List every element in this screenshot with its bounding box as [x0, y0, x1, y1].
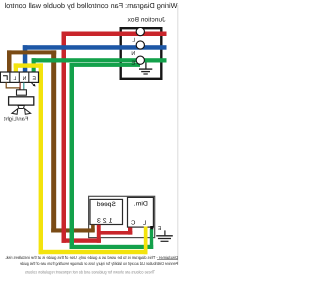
svg-text:Fan/Light: Fan/Light: [3, 116, 28, 122]
svg-text:E: E: [32, 76, 36, 82]
svg-text:C: C: [130, 219, 135, 226]
svg-text:Junction Box: Junction Box: [127, 17, 166, 24]
svg-text:Wiring Diagram: Fan controlled: Wiring Diagram: Fan controlled by double…: [4, 1, 177, 10]
svg-text:Disclaimer - This diagram is t: Disclaimer - This diagram is to be used …: [5, 255, 178, 260]
svg-text:L: L: [132, 38, 135, 44]
svg-text:N: N: [22, 76, 26, 82]
svg-text:Pennine Distribution Ltd accep: Pennine Distribution Ltd accept no liabi…: [20, 261, 178, 266]
svg-text:1 2 3: 1 2 3: [96, 217, 112, 224]
svg-text:Speed: Speed: [96, 201, 116, 208]
svg-text:These colours are shown for gu: These colours are shown for guidance and…: [24, 270, 155, 275]
svg-text:L: L: [142, 219, 146, 226]
svg-text:E: E: [131, 61, 135, 67]
svg-text:Dim.: Dim.: [133, 201, 148, 208]
svg-text:E: E: [157, 226, 161, 232]
svg-text:N: N: [131, 51, 135, 57]
svg-text:L: L: [13, 76, 16, 82]
